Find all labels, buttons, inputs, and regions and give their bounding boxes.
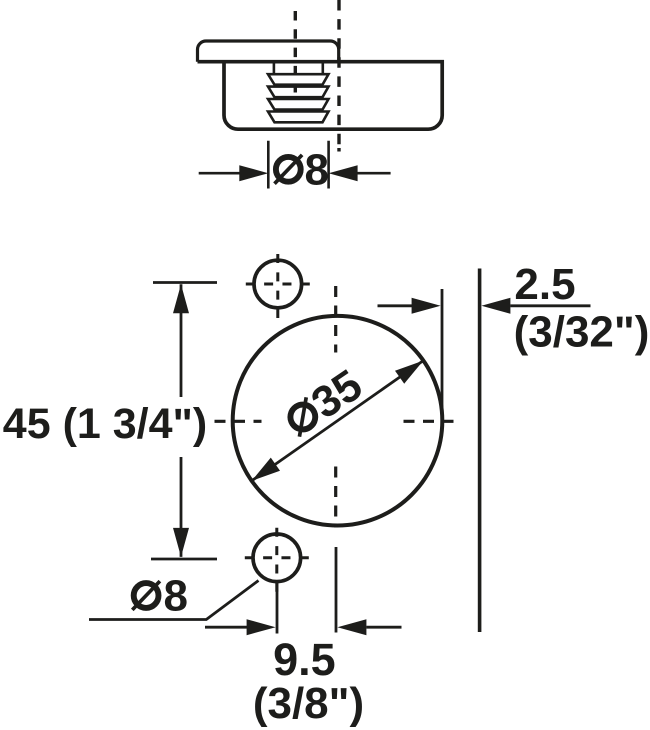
Ø35 dimension arrow: [252, 361, 424, 481]
hole top center mark: [276, 254, 279, 318]
dim 2.5 right-pointing arrow: [378, 304, 414, 307]
9.5 dim left arrow: [205, 626, 249, 629]
45 dim bottom extension line: [151, 558, 217, 561]
9.5 dim left extension line: [276, 582, 279, 634]
panel edge line: [478, 269, 482, 633]
svg-text:8: 8: [305, 145, 329, 194]
circle tangent extension line: [441, 289, 444, 421]
cup body (side view): [198, 62, 443, 130]
Ø35 label: [278, 360, 371, 445]
vertical centerline of big circle upper part: [334, 286, 337, 353]
hole top circle: [254, 260, 302, 308]
hole bottom center mark: [275, 528, 278, 592]
45 dim line upper segment: [180, 284, 183, 397]
svg-text:9.5: 9.5: [273, 634, 336, 685]
dim 2.5 left-pointing arrow: [481, 298, 510, 314]
dimension Ø8 right arrow: [357, 172, 391, 175]
45 dim top extension line: [153, 281, 217, 284]
45 dim line lower segment: [180, 457, 183, 557]
Ø8 leader: [89, 581, 259, 620]
rib 2: [268, 87, 329, 98]
45 dim arrow down: [173, 528, 189, 557]
svg-text:(3/32"): (3/32"): [514, 308, 650, 357]
rib 1: [268, 74, 329, 85]
dimension Ø8 extension bars: [268, 141, 328, 189]
svg-text:(3/8"): (3/8"): [253, 679, 364, 728]
horizontal centerline left: [215, 420, 262, 423]
big circle Ø35: [233, 316, 443, 526]
vertical centerline of big circle lower part: [334, 467, 337, 528]
flange: [198, 41, 339, 62]
centerline drilling axis end dot: [337, 148, 340, 152]
svg-text:8: 8: [164, 572, 188, 621]
45 dim arrow up: [173, 284, 189, 313]
centerline cup axis: [294, 11, 297, 93]
centerline drilling axis: [337, 0, 340, 145]
hole bottom circle: [253, 534, 301, 582]
svg-text:45 (1 3/4"): 45 (1 3/4"): [3, 400, 207, 448]
9.5 dim right extension line: [335, 547, 338, 633]
dowel stem: [274, 64, 323, 75]
Ø8 label bottom: [134, 583, 159, 608]
9.5 dim right arrow: [337, 619, 366, 635]
horizontal centerline right: [404, 420, 459, 423]
dimension Ø8 left arrow: [199, 172, 241, 175]
dimension Ø8 text: [276, 157, 301, 182]
svg-text:2.5: 2.5: [514, 260, 575, 309]
rib 3: [268, 99, 329, 110]
rib 4: [268, 112, 329, 123]
